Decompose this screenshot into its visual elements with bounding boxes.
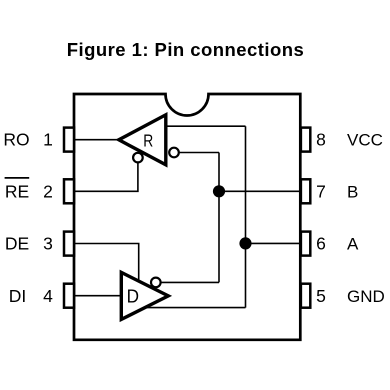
svg-text:B: B: [347, 182, 358, 201]
svg-text:GND: GND: [347, 287, 385, 306]
pin 5 pad: [301, 284, 310, 308]
pin 1 pad: [64, 128, 74, 152]
svg-text:RO: RO: [3, 130, 29, 150]
svg-text:6: 6: [316, 234, 326, 254]
svg-text:4: 4: [43, 286, 53, 306]
pin 3 pad: [64, 232, 74, 256]
wire net A vertical: [245, 126, 247, 307]
svg-text:1: 1: [43, 130, 53, 150]
driver B output bubble: [151, 278, 161, 288]
IC body outline with notch: [74, 94, 300, 340]
pin 7 pad: [301, 179, 310, 203]
svg-text:Figure 1: Pin connections: Figure 1: Pin connections: [67, 39, 304, 60]
junction node B (dot): [213, 185, 225, 197]
pin 2 pad: [64, 179, 74, 203]
svg-text:A: A: [347, 235, 359, 254]
svg-text:DI: DI: [9, 286, 27, 306]
wire net A branch to pin 6: [246, 242, 301, 244]
wire net B branch to pin 7: [219, 190, 300, 192]
pin 4 pad: [64, 284, 74, 308]
svg-text:D: D: [127, 286, 139, 306]
wire net A bottom run to driver output: [143, 307, 246, 309]
svg-text:DE: DE: [5, 234, 29, 254]
svg-text:2: 2: [43, 181, 53, 201]
svg-text:7: 7: [316, 181, 326, 201]
op-amp R receiver triangle: [119, 115, 166, 165]
wire DI pin 4 to driver input: [74, 295, 121, 297]
svg-text:3: 3: [43, 234, 53, 254]
receiver RE enable bubble: [133, 153, 143, 163]
wire DE enable pin 3 to driver top edge: [74, 244, 139, 282]
wire receiver A input (net A) top run: [166, 125, 246, 127]
svg-text:5: 5: [316, 286, 326, 306]
wire RE enable from receiver bubble to pin 2: [74, 158, 138, 192]
junction node A (dot): [239, 237, 251, 249]
svg-text:VCC: VCC: [347, 131, 383, 150]
svg-text:R: R: [143, 130, 153, 150]
svg-text:RE: RE: [5, 181, 29, 201]
receiver B input bubble: [169, 148, 179, 158]
wire receiver B input run: [174, 152, 219, 154]
pin 6 pad: [301, 232, 310, 256]
pin 8 pad: [301, 128, 310, 152]
wire pin1 RO to receiver output tip: [74, 139, 119, 141]
wire driver inverted output bubble to net B: [156, 281, 219, 283]
op-amp D driver triangle: [121, 272, 168, 319]
wire net B vertical: [218, 153, 220, 283]
svg-text:8: 8: [316, 130, 326, 150]
